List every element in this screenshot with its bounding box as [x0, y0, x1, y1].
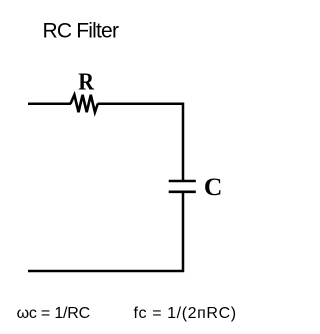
- wire: top-left input lead to resistor: [28, 102, 71, 105]
- wire: resistor to top-right corner, down to capacitor top plate: [98, 104, 184, 181]
- svg-text:fc = 1/(2пRC): fc = 1/(2пRC): [134, 305, 237, 322]
- svg-text:ωc = 1/RC: ωc = 1/RC: [17, 305, 90, 322]
- svg-text:R: R: [78, 70, 94, 96]
- wire: capacitor bottom plate down, bottom-right corner, bottom return wire: [28, 192, 183, 271]
- svg-text:RC Filter: RC Filter: [43, 20, 119, 43]
- svg-text:C: C: [204, 172, 222, 201]
- resistor R (zigzag): [71, 95, 98, 112]
- capacitor C (two plates): [169, 181, 196, 192]
